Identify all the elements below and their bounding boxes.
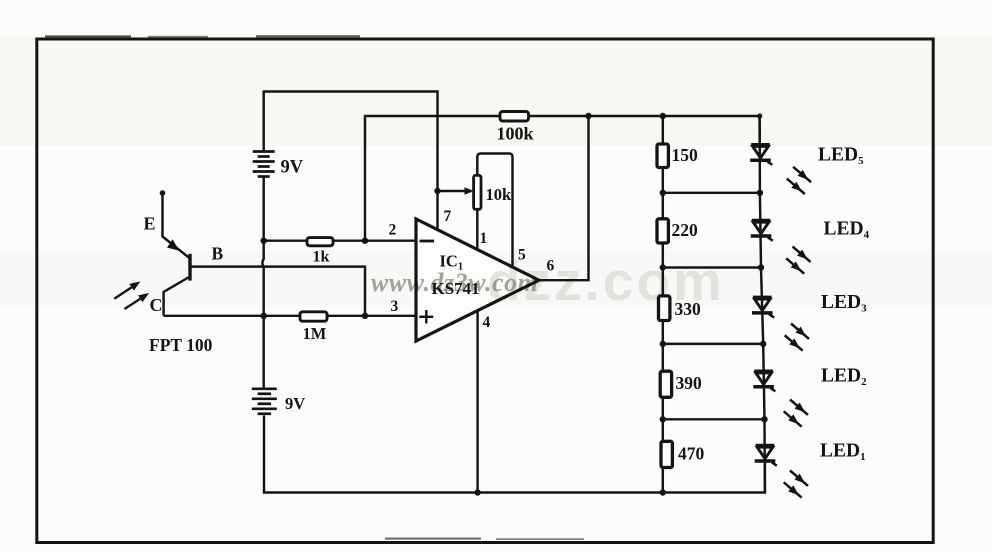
svg-text:LED2: LED2 [821,366,867,389]
svg-text:9V: 9V [285,394,305,413]
LED LED2 [753,371,775,391]
LED LED3 [752,297,774,317]
wire: op-amp pin 4 to ground bus [476,311,478,493]
LED LED5 [750,145,772,165]
svg-text:E: E [144,214,156,234]
LED LED4 [751,221,773,241]
wire: resistor ladder column [662,116,664,493]
svg-text:4: 4 [483,314,491,331]
wire: ladder rung 1 [663,192,760,194]
wire: battery B2 bottom / ground bus to LED1 cathode [264,416,765,493]
svg-text:100k: 100k [497,124,534,144]
incident light arrows [114,281,149,309]
wire: ladder rung 4 [663,418,765,420]
resistor R 220 [657,219,668,243]
wire: battery column x264 with hop over base wire [262,178,263,389]
svg-text:LED1: LED1 [820,441,866,464]
svg-text:2: 2 [389,222,397,239]
svg-text:7: 7 [444,208,452,225]
svg-text:470: 470 [678,444,705,464]
svg-text:3: 3 [391,298,399,315]
wire: battery B1 top to op-amp pin 7 [264,92,438,230]
resistor R4 100k [500,112,529,122]
op-amp plus input mark [419,316,433,318]
svg-text:LED3: LED3 [821,292,867,315]
scan smudges on border [45,35,131,37]
svg-text:1M: 1M [303,324,327,343]
resistor R 470 [661,441,672,467]
phototransistor Q1 FPT100 [160,190,190,316]
wire: ladder rung 2 [663,266,761,268]
svg-text:1k: 1k [313,249,330,266]
svg-text:390: 390 [676,373,703,393]
svg-text:220: 220 [672,220,699,240]
svg-text:LED5: LED5 [818,145,864,168]
resistor R 390 [660,371,671,397]
svg-text:KS741: KS741 [432,279,480,298]
resistor R2 1k [307,238,333,246]
battery B1 9V [253,152,275,177]
wire: pot bottom to op-amp pin 1 [476,209,478,250]
op-amp U1 body fill [416,219,539,341]
svg-text:5: 5 [518,247,526,264]
wire: op-amp output pin 6 up to feedback net [539,116,589,280]
wire: base B to 1M right node [190,267,365,316]
svg-text:150: 150 [672,145,699,165]
wire: pin 2 input line through R 1k [264,239,416,241]
wire: pin 3 input line through R 1M [164,315,416,317]
resistor R3 1M [300,312,327,321]
svg-text:9V: 9V [281,158,304,178]
potentiometer RP 10k [474,175,481,209]
wire: feedback net y116 from node to LED column top [365,116,760,241]
svg-text:6: 6 [547,258,555,275]
wire: pot top to op-amp pin 5 [477,154,512,267]
svg-text:10k: 10k [486,185,513,204]
svg-text:C: C [150,295,163,315]
wire: LED string column [760,116,765,493]
svg-text:LED4: LED4 [824,219,870,242]
wire: pot wiper from V+ line [438,190,472,192]
LED LED1 [755,446,777,466]
resistor R 330 [659,296,670,321]
op-amp minus input mark [420,240,435,243]
svg-text:B: B [212,244,224,264]
LED emission arrows [784,167,811,498]
resistor R 150 [657,144,668,168]
op-amp U1 IC1 KS741 [416,219,539,341]
battery B2 9V [252,389,277,414]
svg-text:330: 330 [675,299,702,319]
svg-text:FPT 100: FPT 100 [149,335,213,355]
svg-text:1: 1 [480,230,488,247]
wire: ladder rung 3 [663,343,763,345]
